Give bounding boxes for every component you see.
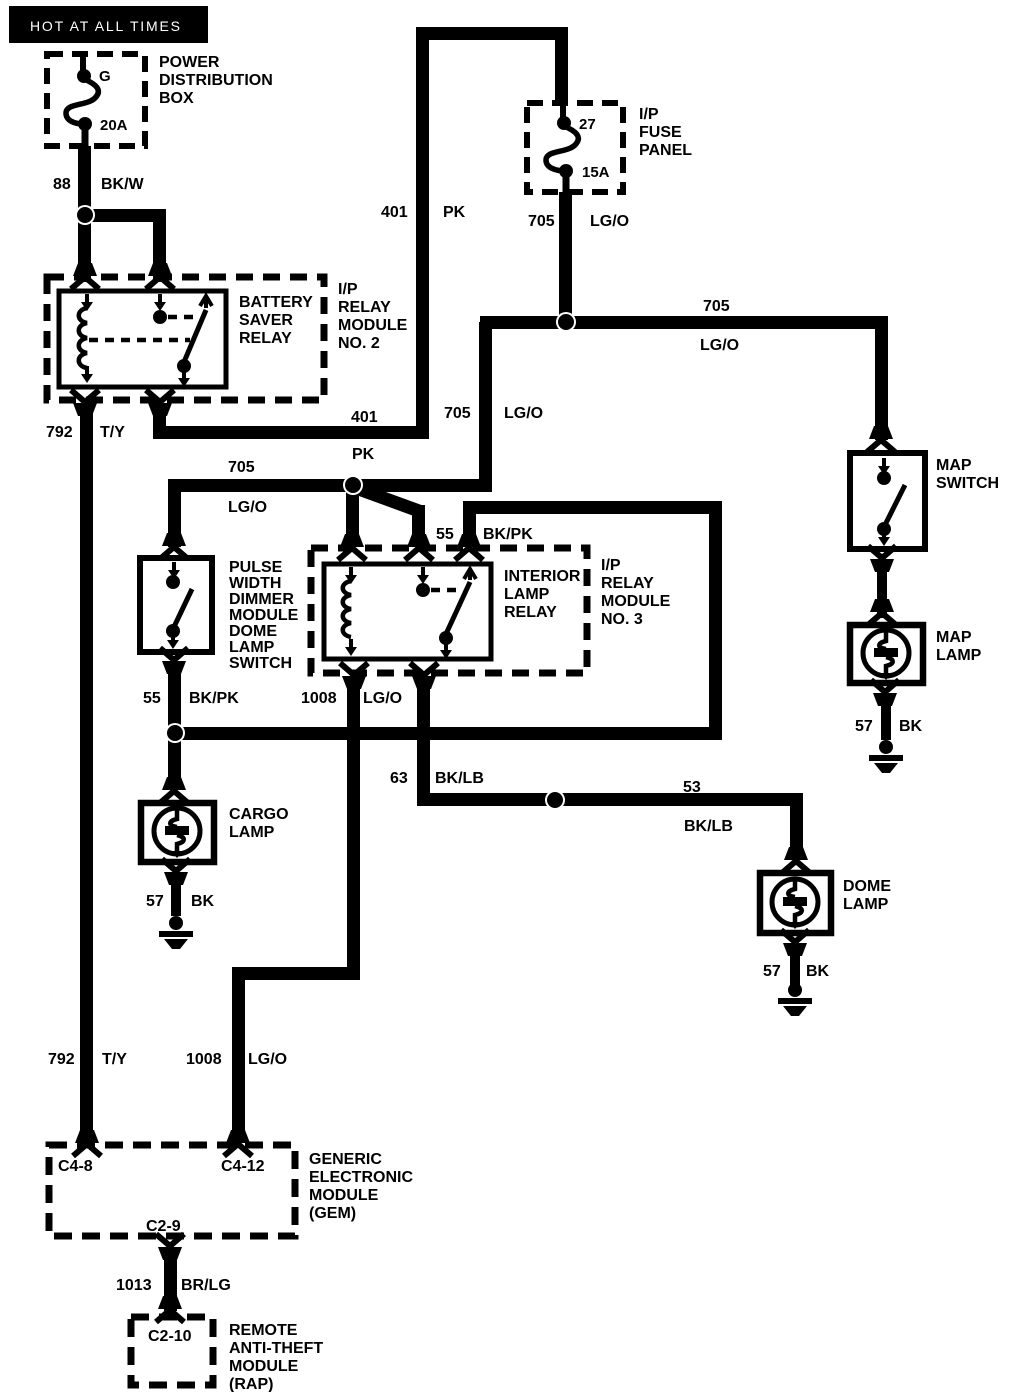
- connector interior lamp relay pin 4 (bottom, wire 1008): [340, 663, 368, 689]
- svg-text:BK/LB: BK/LB: [435, 770, 484, 787]
- connector GEM C4-12: [224, 1130, 252, 1156]
- svg-text:55: 55: [143, 690, 161, 707]
- svg-text:BATTERY: BATTERY: [239, 294, 313, 311]
- svg-text:C2-10: C2-10: [148, 1328, 192, 1345]
- connector battery saver relay pin 1 (top): [71, 263, 99, 289]
- interior lamp relay contact pin 2: [416, 567, 430, 597]
- dimmer switch contacts: [166, 562, 192, 649]
- wire branch to relay pin 2: [85, 209, 166, 282]
- svg-text:(RAP): (RAP): [229, 1376, 273, 1392]
- junction 55 below dimmer: [165, 723, 185, 743]
- wire 88 BK/W: [53, 146, 145, 282]
- svg-text:GENERIC: GENERIC: [309, 1151, 382, 1168]
- connector pulse width dimmer module (top): [160, 533, 188, 559]
- svg-text:RELAY: RELAY: [338, 299, 391, 316]
- svg-text:MODULE: MODULE: [309, 1187, 379, 1204]
- banner HOT AT ALL TIMES: [9, 6, 208, 43]
- wire 705 LG/O (horizontal to map switch): [480, 298, 888, 440]
- svg-text:792: 792: [46, 424, 73, 441]
- wire map switch to map lamp: [877, 560, 887, 618]
- connector battery saver relay pin 3 (bottom, wire 792): [71, 390, 99, 416]
- battery saver relay contact pin 2: [153, 294, 167, 324]
- svg-text:DIMMER: DIMMER: [229, 591, 294, 608]
- wire to interior relay pin 2 (diagonal): [356, 488, 425, 547]
- svg-text:HOT AT ALL TIMES: HOT AT ALL TIMES: [30, 18, 182, 34]
- svg-text:LG/O: LG/O: [590, 213, 629, 230]
- svg-text:LG/O: LG/O: [248, 1051, 287, 1068]
- svg-text:MODULE: MODULE: [229, 607, 299, 624]
- svg-text:57: 57: [763, 963, 781, 980]
- wire 705 LG/O (fuse panel down): [528, 192, 629, 322]
- svg-text:DISTRIBUTION: DISTRIBUTION: [159, 72, 273, 89]
- svg-text:MAP: MAP: [936, 629, 972, 646]
- svg-text:LG/O: LG/O: [228, 499, 267, 516]
- svg-text:LAMP: LAMP: [229, 824, 275, 841]
- svg-text:C4-8: C4-8: [58, 1158, 93, 1175]
- svg-text:55: 55: [436, 526, 454, 543]
- svg-text:CARGO: CARGO: [229, 806, 289, 823]
- connector interior lamp relay pin 1 (top): [338, 534, 366, 560]
- svg-text:27: 27: [579, 116, 596, 133]
- generic electronic module (GEM) box: [49, 1145, 413, 1236]
- svg-text:SWITCH: SWITCH: [229, 655, 292, 672]
- svg-text:LG/O: LG/O: [504, 405, 543, 422]
- svg-text:1008: 1008: [186, 1051, 222, 1068]
- svg-text:401: 401: [381, 204, 408, 221]
- connector GEM C2-9 (bottom): [156, 1234, 184, 1260]
- svg-text:LAMP: LAMP: [936, 647, 982, 664]
- connector dome lamp (bottom): [781, 930, 809, 956]
- wire 401 PK (relay to fuse panel): [153, 27, 568, 463]
- wire 57 BK (dome lamp ground wire): [763, 945, 830, 985]
- cargo lamp: [141, 803, 289, 862]
- svg-text:BK: BK: [899, 718, 923, 735]
- svg-text:T/Y: T/Y: [100, 424, 125, 441]
- ground (cargo lamp): [159, 916, 193, 949]
- svg-text:PK: PK: [352, 446, 375, 463]
- svg-text:LG/O: LG/O: [700, 337, 739, 354]
- junction 705 splice: [556, 312, 576, 332]
- svg-text:792: 792: [48, 1051, 75, 1068]
- svg-text:ELECTRONIC: ELECTRONIC: [309, 1169, 413, 1186]
- battery saver relay switch lever: [177, 296, 212, 387]
- svg-text:NO. 3: NO. 3: [601, 611, 643, 628]
- svg-text:WIDTH: WIDTH: [229, 575, 281, 592]
- svg-text:15A: 15A: [582, 164, 610, 181]
- wire 57 BK (map lamp ground wire): [855, 695, 923, 740]
- svg-text:FUSE: FUSE: [639, 124, 682, 141]
- pulse width dimmer module dome lamp switch: [140, 558, 299, 672]
- svg-text:NO. 2: NO. 2: [338, 335, 380, 352]
- svg-text:53: 53: [683, 779, 701, 796]
- svg-text:BK/W: BK/W: [101, 176, 145, 193]
- map lamp: [850, 625, 982, 683]
- remote anti-theft module (RAP) box: [131, 1317, 323, 1393]
- svg-text:BK: BK: [806, 963, 830, 980]
- wire 1013 BR/LG: [116, 1247, 231, 1311]
- svg-text:57: 57: [855, 718, 873, 735]
- svg-text:LAMP: LAMP: [229, 639, 275, 656]
- ground (dome lamp): [778, 983, 812, 1016]
- wire 792 T/Y (left vertical run): [46, 408, 127, 1138]
- svg-text:BOX: BOX: [159, 90, 194, 107]
- svg-text:REMOTE: REMOTE: [229, 1322, 298, 1339]
- connector battery saver relay pin 4 (bottom, wire 401): [146, 390, 174, 416]
- svg-text:G: G: [99, 68, 111, 85]
- svg-text:RELAY: RELAY: [239, 330, 292, 347]
- svg-text:MAP: MAP: [936, 457, 972, 474]
- svg-text:(GEM): (GEM): [309, 1205, 356, 1222]
- svg-text:MODULE: MODULE: [601, 593, 671, 610]
- wire 1008 LG/O (relay to GEM): [186, 681, 402, 1138]
- svg-text:BR/LG: BR/LG: [181, 1277, 231, 1294]
- svg-text:C2-9: C2-9: [146, 1218, 181, 1235]
- svg-text:T/Y: T/Y: [102, 1051, 127, 1068]
- I/P relay module no. 2 box: [47, 277, 408, 400]
- splice on wire 63: [545, 790, 565, 810]
- wire 705 LG/O (left branch down to dimmer): [168, 322, 543, 547]
- svg-text:BK: BK: [191, 893, 215, 910]
- wire 57 BK (cargo lamp ground wire): [146, 874, 215, 916]
- junction 705 at interior relay: [343, 475, 363, 495]
- svg-text:705: 705: [703, 298, 730, 315]
- wire 55 BK/PK loop (relay pin 3 to dimmer output): [175, 501, 722, 740]
- svg-text:1008: 1008: [301, 690, 337, 707]
- svg-text:LAMP: LAMP: [504, 586, 550, 603]
- svg-text:C4-12: C4-12: [221, 1158, 265, 1175]
- map switch: [850, 453, 999, 549]
- svg-text:705: 705: [528, 213, 555, 230]
- fuse 20A (power distribution box): [66, 56, 128, 146]
- svg-text:401: 401: [351, 409, 378, 426]
- svg-text:PK: PK: [443, 204, 466, 221]
- svg-text:I/P: I/P: [639, 106, 659, 123]
- svg-text:1013: 1013: [116, 1277, 152, 1294]
- connector GEM C4-8: [73, 1130, 101, 1156]
- svg-text:I/P: I/P: [338, 281, 358, 298]
- battery saver relay coil: [79, 294, 93, 383]
- svg-text:LG/O: LG/O: [363, 690, 402, 707]
- svg-text:20A: 20A: [100, 117, 128, 134]
- I/P fuse panel box: [527, 103, 692, 192]
- interior lamp relay: [324, 564, 581, 659]
- svg-text:MODULE: MODULE: [338, 317, 408, 334]
- battery saver relay actuating dashed links: [89, 317, 200, 340]
- battery saver relay: [59, 291, 313, 387]
- svg-text:INTERIOR: INTERIOR: [504, 568, 581, 585]
- svg-text:88: 88: [53, 176, 71, 193]
- wire to interior relay coil pin: [346, 485, 359, 547]
- connector map lamp (top): [868, 599, 896, 625]
- svg-text:PANEL: PANEL: [639, 142, 692, 159]
- svg-text:RELAY: RELAY: [601, 575, 654, 592]
- fuse 27 15A (I/P fuse panel): [546, 105, 610, 192]
- connector cargo lamp (bottom): [162, 859, 190, 885]
- svg-text:PULSE: PULSE: [229, 559, 283, 576]
- svg-text:BK/PK: BK/PK: [189, 690, 239, 707]
- interior lamp relay switch lever: [439, 569, 476, 659]
- svg-text:57: 57: [146, 893, 164, 910]
- svg-text:63: 63: [390, 770, 408, 787]
- dome lamp: [760, 873, 891, 933]
- svg-text:BK/PK: BK/PK: [483, 526, 533, 543]
- svg-text:MODULE: MODULE: [229, 1358, 299, 1375]
- wire 63 BK/LB (relay to dome lamp): [390, 681, 803, 855]
- connector battery saver relay pin 2 (top): [146, 263, 174, 289]
- power distribution box: [47, 54, 273, 146]
- connector cargo lamp (top): [160, 777, 188, 803]
- interior lamp relay coil: [343, 567, 357, 656]
- svg-text:POWER: POWER: [159, 54, 220, 71]
- svg-text:SWITCH: SWITCH: [936, 475, 999, 492]
- svg-text:ANTI-THEFT: ANTI-THEFT: [229, 1340, 323, 1357]
- connector map lamp (bottom): [871, 680, 899, 706]
- svg-text:SAVER: SAVER: [239, 312, 293, 329]
- connector map switch (top): [867, 426, 895, 452]
- svg-text:DOME: DOME: [229, 623, 277, 640]
- svg-text:705: 705: [444, 405, 471, 422]
- map switch contacts: [877, 458, 905, 546]
- junction on wire 88: [75, 205, 95, 225]
- connector interior lamp relay pin 2 (top): [405, 534, 433, 560]
- connector interior lamp relay pin 3 (top): [455, 534, 483, 560]
- svg-text:BK/LB: BK/LB: [684, 818, 733, 835]
- interior lamp relay actuating dashed link: [431, 588, 462, 593]
- ground (map lamp): [869, 740, 903, 773]
- svg-text:705: 705: [228, 459, 255, 476]
- connector dome lamp (top): [782, 847, 810, 873]
- wire 55 BK/PK (dimmer to cargo lamp): [143, 663, 239, 783]
- svg-text:I/P: I/P: [601, 557, 621, 574]
- svg-text:DOME: DOME: [843, 878, 891, 895]
- svg-text:RELAY: RELAY: [504, 604, 557, 621]
- I/P relay module no. 3 box: [311, 548, 671, 673]
- connector interior lamp relay pin 5 (bottom, wire 63): [410, 663, 438, 689]
- connector dimmer switch (bottom): [160, 648, 188, 674]
- connector RAP C2-10: [156, 1296, 184, 1322]
- connector map switch (bottom): [868, 546, 896, 572]
- svg-text:LAMP: LAMP: [843, 896, 889, 913]
